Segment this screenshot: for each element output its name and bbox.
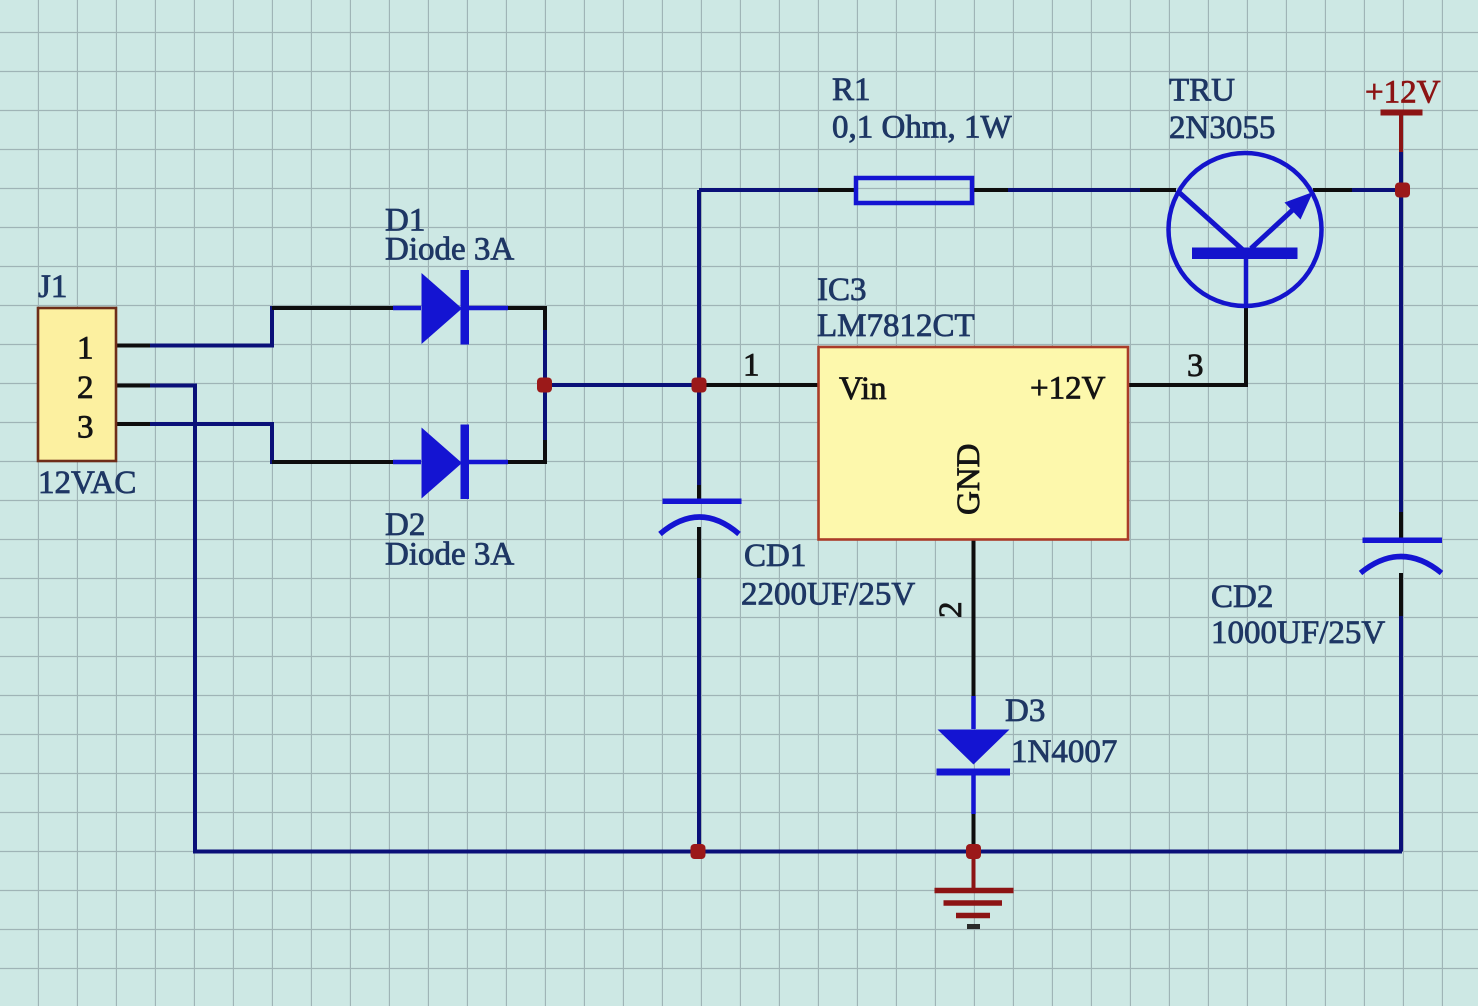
svg-text:3: 3 <box>77 410 94 446</box>
svg-text:Diode 3A: Diode 3A <box>385 232 514 268</box>
svg-text:2200UF/25V: 2200UF/25V <box>741 577 915 613</box>
svg-text:J1: J1 <box>38 269 67 305</box>
svg-text:Diode 3A: Diode 3A <box>385 537 514 573</box>
svg-text:0,1 Ohm, 1W: 0,1 Ohm, 1W <box>832 110 1013 146</box>
svg-text:R1: R1 <box>832 72 871 108</box>
svg-text:D3: D3 <box>1005 693 1045 729</box>
svg-text:LM7812CT: LM7812CT <box>817 308 975 344</box>
svg-text:GND: GND <box>951 444 987 516</box>
svg-text:IC3: IC3 <box>817 272 867 308</box>
svg-text:1N4007: 1N4007 <box>1011 734 1117 770</box>
svg-text:2: 2 <box>933 602 969 619</box>
svg-text:CD2: CD2 <box>1211 579 1273 615</box>
svg-text:2: 2 <box>77 370 94 406</box>
svg-text:12VAC: 12VAC <box>38 465 136 501</box>
svg-text:TRU: TRU <box>1169 73 1235 109</box>
svg-text:2N3055: 2N3055 <box>1169 110 1275 146</box>
svg-text:+12V: +12V <box>1365 75 1441 111</box>
svg-text:1000UF/25V: 1000UF/25V <box>1211 615 1385 651</box>
svg-text:CD1: CD1 <box>744 538 806 574</box>
svg-text:3: 3 <box>1187 348 1204 384</box>
svg-text:+12V: +12V <box>1030 371 1106 407</box>
svg-text:Vin: Vin <box>839 371 887 407</box>
svg-text:1: 1 <box>77 331 94 367</box>
svg-text:1: 1 <box>743 348 760 384</box>
